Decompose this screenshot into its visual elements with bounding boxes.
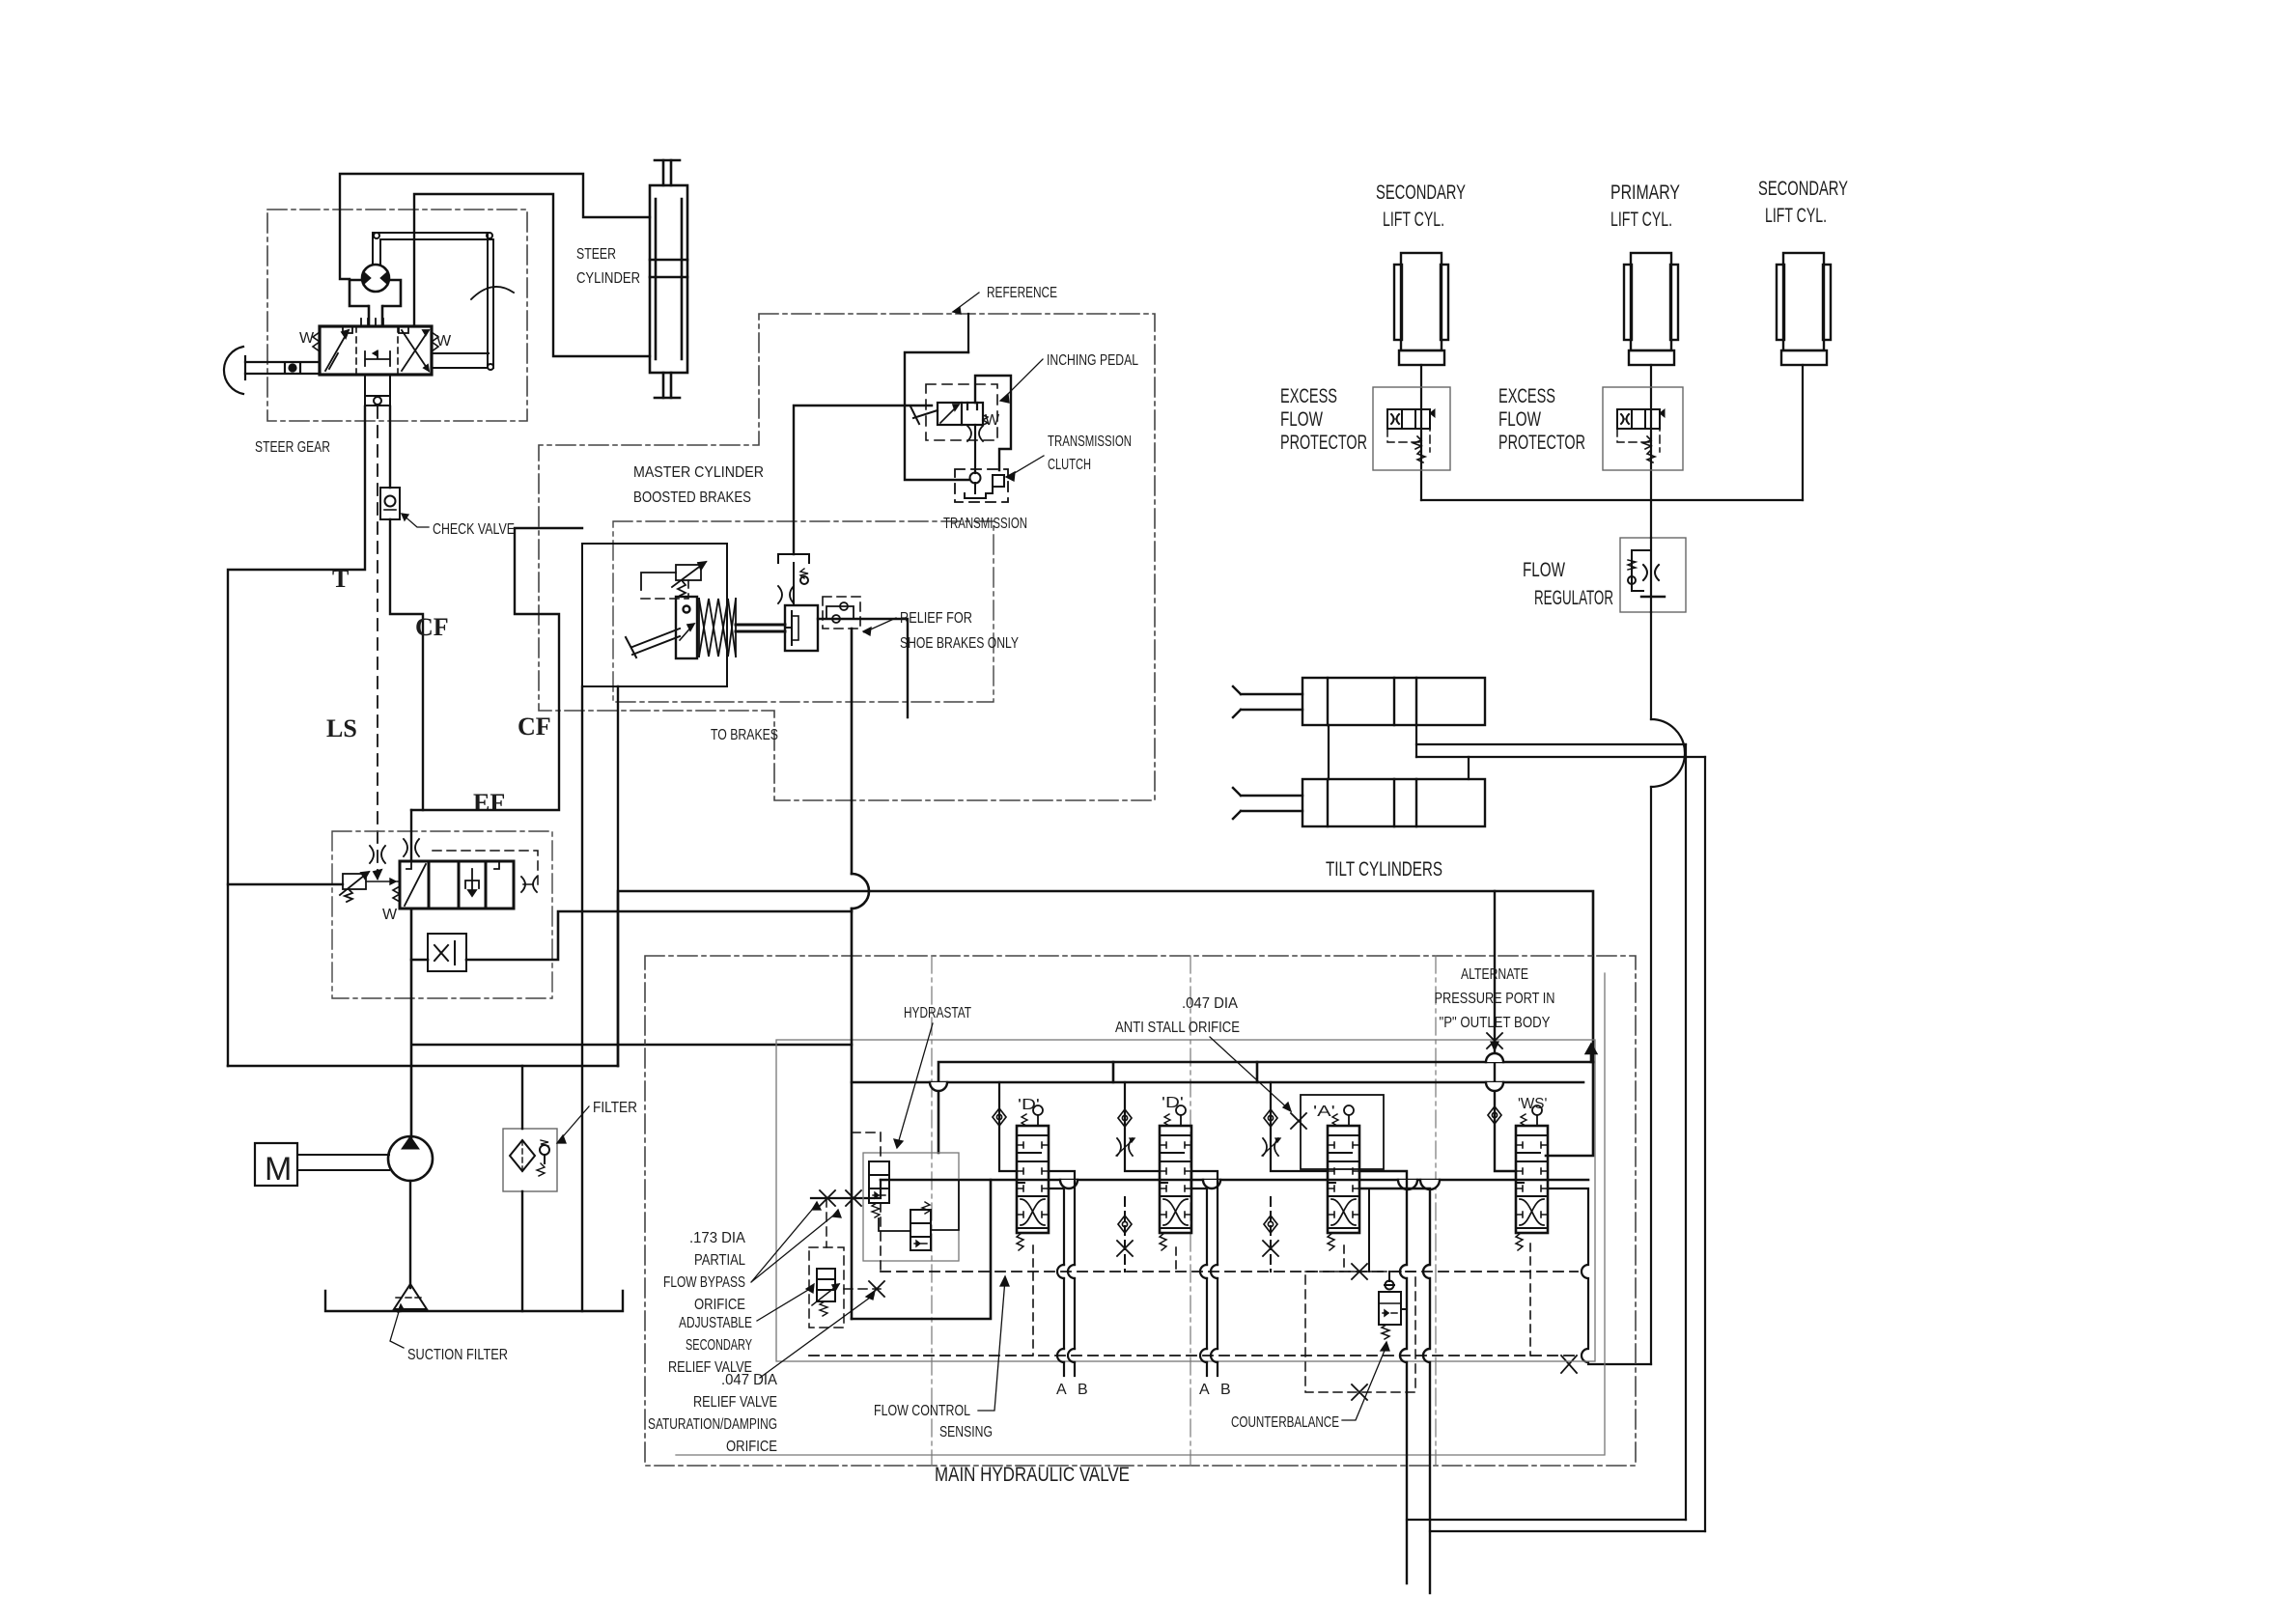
svg-text:SECONDARY: SECONDARY (1758, 178, 1848, 200)
steer gear enclosure box (267, 210, 527, 421)
inching enclosure (905, 352, 1011, 480)
hydrastat plumbing (879, 1180, 959, 1231)
feedback linkage double line (373, 233, 493, 370)
svg-text:STEER: STEER (576, 246, 616, 263)
relief for shoe brakes (dashed box) (823, 597, 860, 629)
wire: right cylinder down (1802, 365, 1804, 500)
ALTERNATE PRESSURE PORT (1435, 966, 1555, 1031)
svg-text:SATURATION/DAMPING: SATURATION/DAMPING (648, 1416, 777, 1433)
svg-text:FLOW BYPASS: FLOW BYPASS (663, 1274, 745, 1291)
svg-text:ʹDʹ: ʹDʹ (1162, 1095, 1184, 1111)
spool D2 (1160, 1105, 1191, 1250)
svg-text:BOOSTED BRAKES: BOOSTED BRAKES (633, 489, 751, 506)
wire: EF CF-out loop (410, 810, 412, 861)
main valve inner thin box (776, 1040, 1595, 1361)
transmission dashed box (955, 469, 1008, 502)
svg-text:LIFT CYL.: LIFT CYL. (1610, 209, 1672, 231)
svg-text:W: W (985, 412, 1000, 429)
EF pilot orifice (521, 877, 537, 892)
wire LS (dashed pilot) (377, 406, 378, 879)
svg-text:.173 DIA: .173 DIA (689, 1230, 745, 1246)
wire: WS section to lift feed (1548, 1189, 1651, 1364)
svg-text:SHOE BRAKES ONLY: SHOE BRAKES ONLY (900, 635, 1019, 652)
bell fitting and check above slave (778, 554, 809, 605)
wire: tank gallery left loop bottom (228, 1065, 618, 1068)
EF priority valve body (400, 861, 514, 909)
bus hop bumps at WS feed (930, 1053, 1503, 1091)
inching valve (938, 403, 983, 425)
inching valve dashed box (926, 384, 997, 440)
adjustable secondary relief valve (812, 1269, 839, 1316)
svg-text:W: W (299, 330, 315, 347)
svg-text:EXCESS: EXCESS (1498, 385, 1555, 407)
suction filter (394, 1284, 427, 1309)
inching pedal leader (1000, 359, 1043, 403)
tilt cylinder (top) (1233, 678, 1485, 725)
svg-text:M: M (265, 1151, 292, 1188)
svg-text:RELIEF FOR: RELIEF FOR (900, 610, 972, 627)
counterbalance valve (1379, 1272, 1401, 1339)
spool A (1328, 1105, 1359, 1250)
svg-text:CHECK VALVE: CHECK VALVE (433, 521, 515, 538)
.047 relief labels (648, 1372, 777, 1455)
excess flow protector (middle) box (1603, 387, 1683, 470)
hydrastat box (863, 1153, 959, 1261)
steer valve internals (325, 319, 429, 371)
check valve leader (402, 514, 429, 527)
beam hop bumps (1060, 1180, 1440, 1189)
hydrastat leader (894, 1023, 933, 1148)
suction filter leader (390, 1304, 405, 1348)
filter leader (557, 1106, 589, 1143)
primary lift cylinder (middle) (1624, 253, 1678, 365)
svg-text:ORIFICE: ORIFICE (726, 1439, 777, 1455)
motor box (255, 1143, 297, 1186)
svg-text:PRESSURE PORT IN: PRESSURE PORT IN (1435, 991, 1555, 1007)
wire: D1 feed (999, 1082, 1017, 1171)
svg-text:ʹAʹ: ʹAʹ (1313, 1104, 1335, 1120)
svg-text:FILTER: FILTER (593, 1100, 637, 1116)
wire: slave to inching pedal (794, 405, 932, 554)
steer control valve body (320, 326, 432, 375)
svg-text:REFERENCE: REFERENCE (987, 285, 1057, 301)
excess flow protector valve (middle) (1617, 409, 1665, 429)
wire: booster return lines (582, 686, 618, 1311)
hydrastat cartridge 1 (869, 1161, 889, 1217)
hydrastat cartridge 2 (910, 1202, 931, 1250)
wire: inching valve down to clutch (974, 425, 976, 473)
EF inlet orifice (404, 839, 419, 856)
wire: A feed (1271, 1082, 1328, 1171)
wire: second feed line (852, 1045, 1596, 1082)
motor-pump shaft (297, 1155, 389, 1170)
master cylinder inner dash-dot box (613, 521, 994, 702)
booster relief valve (641, 562, 706, 596)
svg-text:SECONDARY: SECONDARY (1376, 182, 1466, 204)
svg-text:PARTIAL: PARTIAL (694, 1252, 745, 1269)
wire: D2 feed (1125, 1082, 1160, 1171)
anti stall leader (1210, 1037, 1291, 1111)
damping orifice .047 (869, 1281, 884, 1297)
svg-text:.047 DIA: .047 DIA (721, 1372, 777, 1388)
svg-text:FLOW: FLOW (1523, 559, 1565, 581)
spool D1 (1017, 1105, 1049, 1250)
svg-text:FLOW CONTROL: FLOW CONTROL (874, 1403, 970, 1419)
wire: pump suction (409, 1181, 411, 1288)
svg-text:TRANSMISSION: TRANSMISSION (1048, 433, 1132, 450)
wire: tank gallery to EF relief (228, 883, 343, 885)
rotation arrow arc (471, 287, 514, 299)
svg-text:TO BRAKES: TO BRAKES (711, 727, 778, 743)
svg-text:FLOW: FLOW (1280, 408, 1323, 431)
check valve (380, 488, 400, 519)
tilt cylinder (bottom) (1233, 779, 1485, 826)
relief leader (863, 618, 896, 635)
hydrastat pilot dashed (852, 1133, 881, 1272)
svg-text:ORIFICE: ORIFICE (694, 1297, 745, 1313)
svg-text:STEER GEAR: STEER GEAR (255, 439, 330, 456)
steer cylinder (650, 160, 687, 398)
return filter box (503, 1129, 557, 1191)
T port block below valve (365, 375, 390, 406)
svg-text:B: B (1078, 1382, 1088, 1398)
EF relief valve (340, 872, 400, 902)
wire: flow regulator down to hop (1651, 612, 1685, 1364)
excess flow protector (left) box (1373, 387, 1450, 470)
svg-text:W: W (436, 333, 452, 350)
secondary lift cylinder (right) (1777, 253, 1831, 365)
svg-text:MAIN HYDRAULIC VALVE: MAIN HYDRAULIC VALVE (935, 1464, 1130, 1486)
EF bypass box (428, 934, 466, 971)
svg-text:ADJUSTABLE: ADJUSTABLE (679, 1315, 752, 1331)
svg-text:HYDRASTAT: HYDRASTAT (904, 1005, 971, 1021)
wire: steer gear to steer cylinder (inner loop, bottom port) (414, 194, 650, 356)
wire: tilt bottom returns (1407, 1520, 1705, 1531)
steering wheel handle (224, 347, 320, 394)
svg-text:T: T (332, 565, 349, 593)
spool WS (1516, 1105, 1548, 1250)
wire: valve right port to feedback (433, 352, 489, 354)
transmission clutch leader (1006, 456, 1044, 481)
gerotor pump (steering metering unit) (350, 265, 401, 326)
svg-text:B: B (1220, 1382, 1231, 1398)
inching valve spring (983, 415, 988, 425)
svg-text:SECONDARY: SECONDARY (686, 1337, 752, 1354)
anti stall orifice (1291, 1113, 1306, 1129)
wire: EF out to main valve (411, 911, 852, 1045)
orifice below inching valve (967, 426, 983, 441)
svg-text:INCHING PEDAL: INCHING PEDAL (1047, 352, 1138, 369)
EF valve internals (405, 861, 499, 906)
svg-text:EXCESS: EXCESS (1280, 385, 1337, 407)
svg-text:CLUTCH: CLUTCH (1048, 457, 1091, 473)
wire T from steer valve (228, 406, 365, 1066)
svg-text:TRANSMISSION: TRANSMISSION (943, 516, 1027, 532)
svg-text:W: W (382, 907, 398, 923)
EF area dash-dot box (332, 831, 552, 998)
wire CF from steer valve (390, 406, 423, 810)
wire: inching valve top to reference box (967, 314, 969, 352)
master cylinder piston (676, 597, 697, 658)
main valve outer dash-dot box (645, 956, 1636, 1466)
tank (325, 1291, 623, 1311)
svg-text:SENSING: SENSING (939, 1424, 993, 1440)
svg-text:ʹWSʹ: ʹWSʹ (1518, 1096, 1547, 1112)
reference leader (953, 293, 979, 314)
svg-text:ANTI STALL ORIFICE: ANTI STALL ORIFICE (1115, 1020, 1240, 1036)
wire: steer gear to steer cylinder (outer loop, top port) (340, 174, 650, 279)
master cylinder spring (699, 599, 736, 657)
svg-text:FLOW: FLOW (1498, 408, 1541, 431)
inching pedal symbol (910, 406, 938, 424)
ASRV dashed box (809, 1198, 881, 1328)
slave cylinder (785, 605, 818, 651)
svg-text:PROTECTOR: PROTECTOR (1280, 432, 1367, 454)
flow regulator box (1620, 538, 1686, 612)
svg-text:SUCTION FILTER: SUCTION FILTER (407, 1347, 508, 1363)
svg-text:CYLINDER: CYLINDER (576, 270, 640, 287)
wire: D2 work ports (1191, 1171, 1218, 1376)
wire: lower drain dashed (809, 1355, 1578, 1356)
svg-text:COUNTERBALANCE: COUNTERBALANCE (1231, 1414, 1339, 1431)
svg-text:LIFT CYL.: LIFT CYL. (1383, 209, 1444, 231)
spool drain stubs dashed (1033, 1244, 1530, 1356)
EF pilot dashed (433, 851, 538, 884)
brake pedal lever (626, 629, 680, 657)
push rod (736, 625, 785, 631)
transmission clutch circle (970, 473, 981, 484)
secondary lift cylinder (left) (1394, 253, 1448, 365)
wire: D1 work ports (1049, 1171, 1075, 1376)
return filter (510, 1140, 549, 1176)
svg-text:A: A (1199, 1382, 1210, 1398)
wire: lift bus (1421, 499, 1803, 501)
wire: left cylinder down (1420, 365, 1422, 500)
wire: P outlet return to main valve top (618, 891, 1593, 1156)
svg-text:REGULATOR: REGULATOR (1534, 587, 1613, 609)
section boundary chain lines (932, 956, 1436, 1466)
wire: tilt right risers (1686, 744, 1705, 1531)
orifice above slave (778, 586, 794, 603)
wire: P supply vertical (852, 629, 869, 1319)
svg-text:ʹDʹ: ʹDʹ (1018, 1097, 1040, 1113)
svg-text:PROTECTOR: PROTECTOR (1498, 432, 1585, 454)
svg-text:MASTER CYLINDER: MASTER CYLINDER (633, 464, 764, 481)
flow regulator symbol (1628, 538, 1665, 612)
pump (388, 1136, 433, 1181)
wire: LS sensing dashed (881, 1271, 1578, 1272)
tilt cylinder frame links (1329, 725, 1469, 779)
svg-text:TILT CYLINDERS: TILT CYLINDERS (1326, 858, 1442, 881)
svg-text:"P" OUTLET BODY: "P" OUTLET BODY (1440, 1015, 1551, 1031)
.173 labels (663, 1230, 745, 1313)
steer valve springs W (313, 332, 438, 351)
svg-text:A: A (1056, 1382, 1067, 1398)
svg-text:CF: CF (415, 613, 449, 641)
wire: partial flow bypass stub (811, 1180, 881, 1198)
svg-text:RELIEF VALVE: RELIEF VALVE (693, 1394, 777, 1411)
svg-text:PRIMARY: PRIMARY (1610, 182, 1680, 204)
clutch symbol (965, 475, 1004, 498)
wire: middle cylinder down (1650, 365, 1652, 538)
wire: CF supply loop to booster (411, 528, 582, 810)
A section sub-box (1301, 1095, 1384, 1169)
wire: A work ports to tilt (1359, 1171, 1430, 1593)
wire: power beam (881, 1179, 1588, 1182)
.173 leaders (751, 1202, 841, 1282)
wire: tilt feed pair (1416, 744, 1705, 757)
wire: brake output (818, 619, 908, 717)
ADJUSTABLE labels (668, 1315, 752, 1376)
LS orifice (370, 846, 385, 879)
wire: WS feed from P outlet (1495, 891, 1516, 1171)
wire: pump line through EF valve (410, 909, 413, 1137)
counterbalance dashed box (1305, 1272, 1415, 1392)
svg-text:.047 DIA: .047 DIA (1182, 995, 1238, 1012)
bypass orifices .173 (820, 1190, 835, 1206)
wire: top bus (938, 1062, 1593, 1153)
booster housing box (582, 544, 727, 686)
reference dash-dot enclosure (539, 314, 1155, 800)
EF valve spring left (393, 886, 400, 902)
lift feed orifice (1561, 1356, 1577, 1373)
svg-text:EF: EF (473, 789, 505, 817)
wire: counterbalance branch (1369, 1189, 1407, 1309)
svg-text:LIFT CYL.: LIFT CYL. (1765, 205, 1827, 227)
excess flow protector valve (left) (1387, 409, 1435, 429)
wire: P to hydrastat bottom jog (852, 1180, 991, 1319)
wire: filter line (521, 1066, 523, 1311)
svg-text:CF: CF (518, 713, 551, 741)
svg-text:LS: LS (326, 714, 357, 742)
main valve secondary gray outline (676, 973, 1605, 1455)
svg-text:ALTERNATE: ALTERNATE (1461, 966, 1528, 983)
